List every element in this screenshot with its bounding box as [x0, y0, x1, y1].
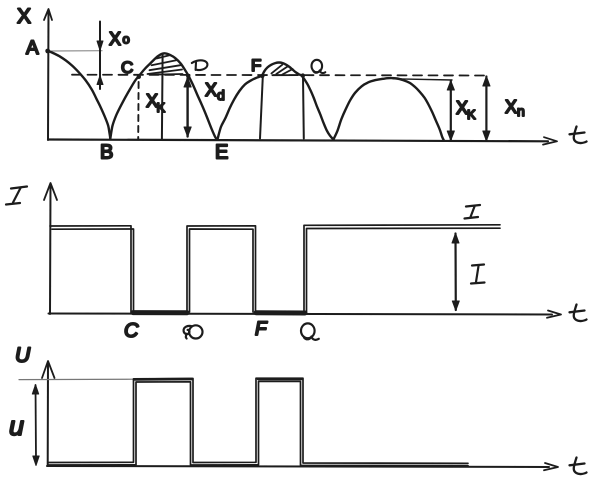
level line at A (thin gray): [50, 50, 102, 52]
curve segment: fall A to B: [48, 51, 110, 139]
svg-text:C: C: [121, 58, 133, 77]
svg-text:n: n: [517, 103, 525, 119]
point C: [137, 75, 141, 79]
svg-text:K: K: [467, 107, 476, 122]
t-axis bottom: [47, 466, 549, 467]
label Q (script, middle axis): [301, 323, 319, 339]
y-axis X: [47, 10, 50, 140]
label I (y-axis, middle plot): [6, 187, 27, 205]
vertical line below Q: [302, 77, 305, 139]
svg-text:o: o: [123, 32, 130, 47]
curve segment: rise E to F: [218, 76, 263, 140]
svg-text:X: X: [17, 5, 31, 28]
label t (top axis): [570, 127, 587, 144]
X0 measure arrow: [99, 22, 101, 90]
t-axis top: [48, 140, 548, 142]
svg-text:F: F: [251, 56, 261, 75]
svg-text:U: U: [15, 344, 31, 367]
svg-text:X: X: [109, 29, 121, 49]
X_d double arrow at D: [186, 78, 188, 137]
svg-text:X: X: [205, 80, 217, 100]
label Q (script, top plot): [312, 60, 326, 73]
svg-text:X: X: [505, 97, 517, 117]
X_K vertical line under first peak: [161, 55, 164, 140]
label t (bottom axis): [570, 458, 587, 475]
svg-text:F: F: [255, 319, 268, 340]
svg-text:C: C: [124, 320, 139, 342]
thin level line at last peak: [393, 79, 452, 80]
point D: [186, 74, 190, 78]
dashed vertical below C: [137, 82, 139, 139]
dashed level line through C D F Q: [72, 74, 487, 77]
label D (script, top plot): [192, 60, 208, 70]
current square wave (double stroked): [50, 225, 500, 313]
label I (above high level): [465, 205, 481, 219]
svg-text:K: K: [157, 100, 166, 115]
svg-text:B: B: [100, 142, 113, 164]
point Q: [301, 73, 305, 77]
curve segment: bounce B-E through C, peak, D: [110, 53, 217, 139]
y-axis U: [47, 362, 49, 466]
X_n double arrow: [485, 77, 487, 141]
curve segment: dome F-Q and fall to third minimum: [262, 63, 333, 140]
I measure arrow: [454, 234, 456, 311]
label I (beside measure arrow): [471, 265, 485, 284]
t-axis middle: [49, 314, 553, 315]
hatched lens between C and D: [148, 55, 183, 75]
thick low segments on axis: [133, 310, 187, 315]
y-axis I: [49, 184, 52, 314]
curve segment: last bounce: [333, 78, 443, 140]
svg-text:E: E: [215, 142, 228, 164]
X_K right double arrow: [450, 81, 452, 140]
svg-text:A: A: [26, 38, 39, 59]
point A: [45, 49, 50, 54]
vertical line below F: [260, 77, 263, 139]
label t (middle axis): [570, 305, 587, 322]
svg-text:u: u: [9, 411, 24, 441]
hatched lens between F and Q: [271, 65, 297, 76]
u measure arrow: [35, 385, 38, 460]
label D (script, middle axis): [184, 325, 203, 338]
thin level guide line: [19, 378, 135, 380]
svg-text:d: d: [217, 87, 225, 103]
voltage square wave (double stroked): [48, 378, 468, 465]
point F: [260, 74, 264, 78]
